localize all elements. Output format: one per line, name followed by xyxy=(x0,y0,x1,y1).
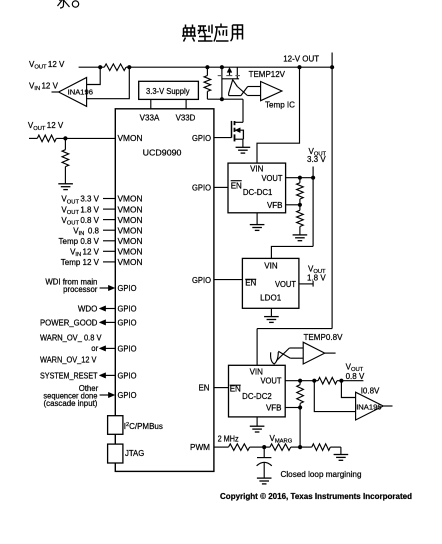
svg-text:V33D: V33D xyxy=(176,113,196,122)
svg-text:GPIO: GPIO xyxy=(118,391,137,400)
svg-text:Temp 12 V: Temp 12 V xyxy=(61,258,100,267)
svg-text:V33A: V33A xyxy=(140,113,160,122)
svg-text:VMON: VMON xyxy=(118,205,143,214)
svg-text:VOUT: VOUT xyxy=(275,280,296,289)
svg-text:PWM: PWM xyxy=(190,443,210,452)
svg-text:UCD9090: UCD9090 xyxy=(143,148,182,158)
svg-text:2 MHz: 2 MHz xyxy=(218,435,239,444)
svg-text:GPIO: GPIO xyxy=(192,134,211,143)
svg-text:VMON: VMON xyxy=(118,248,143,257)
svg-text:POWER_GOOD: POWER_GOOD xyxy=(40,318,98,327)
svg-text:VMON: VMON xyxy=(118,216,143,225)
svg-text:GPIO: GPIO xyxy=(118,319,137,328)
svg-text:SYSTEM_RESET: SYSTEM_RESET xyxy=(40,371,98,380)
svg-text:VOUT12 V: VOUT12 V xyxy=(29,60,65,71)
svg-text:Closed loop margining: Closed loop margining xyxy=(281,470,362,479)
svg-text:VMON: VMON xyxy=(118,237,143,246)
svg-text:INA196: INA196 xyxy=(68,87,93,96)
svg-text:VOUT: VOUT xyxy=(261,376,282,385)
svg-text:VOUT0.8 V: VOUT0.8 V xyxy=(61,216,99,227)
svg-text:VIN: VIN xyxy=(250,368,264,377)
svg-text:GPIO: GPIO xyxy=(118,372,137,381)
svg-text:12-V OUT: 12-V OUT xyxy=(283,55,319,64)
svg-text:LDO1: LDO1 xyxy=(260,293,282,302)
svg-text:VMON: VMON xyxy=(118,134,143,143)
svg-text:EN: EN xyxy=(198,384,209,393)
svg-text:EN: EN xyxy=(245,279,256,288)
svg-text:VMON: VMON xyxy=(118,195,143,204)
svg-text:INA196: INA196 xyxy=(356,402,381,411)
svg-text:WARN_OV_12 V: WARN_OV_12 V xyxy=(40,356,97,365)
svg-text:GPIO: GPIO xyxy=(118,305,137,314)
svg-text:or: or xyxy=(91,344,98,353)
svg-text:VMARG: VMARG xyxy=(270,434,293,445)
svg-text:GPIO: GPIO xyxy=(192,276,211,285)
svg-text:I0.8V: I0.8V xyxy=(361,386,380,395)
svg-text:VMON: VMON xyxy=(118,258,143,267)
svg-text:3.3 V: 3.3 V xyxy=(307,155,326,164)
svg-text:Temp 0.8 V: Temp 0.8 V xyxy=(59,237,100,246)
svg-text:VIN12 V: VIN12 V xyxy=(70,248,100,259)
svg-text:I2C/PMBus: I2C/PMBus xyxy=(124,422,163,431)
svg-text:DC-DC1: DC-DC1 xyxy=(243,188,273,197)
svg-text:VFB: VFB xyxy=(267,201,283,210)
svg-text:GPIO: GPIO xyxy=(118,284,137,293)
svg-text:GPIO: GPIO xyxy=(118,345,137,354)
svg-text:(cascade input): (cascade input) xyxy=(44,399,98,408)
svg-text:VOUT: VOUT xyxy=(262,174,283,183)
svg-text:0.8 V: 0.8 V xyxy=(346,372,365,381)
svg-text:EN: EN xyxy=(231,181,242,190)
svg-text:TEMP12V: TEMP12V xyxy=(249,70,286,79)
svg-text:EN: EN xyxy=(230,385,241,394)
svg-text:WARN_OV_ 0.8 V: WARN_OV_ 0.8 V xyxy=(40,334,102,343)
svg-text:VIN: VIN xyxy=(264,261,278,270)
svg-text:VIN: VIN xyxy=(250,165,264,174)
svg-text:GPIO: GPIO xyxy=(192,184,211,193)
svg-text:VOUT1.8 V: VOUT1.8 V xyxy=(61,205,99,216)
svg-text:VMON: VMON xyxy=(118,226,143,235)
svg-text:Copyright © 2016, Texas Instru: Copyright © 2016, Texas Instruments Inco… xyxy=(220,492,412,501)
svg-text:1.8 V: 1.8 V xyxy=(307,274,326,283)
svg-text:WDO: WDO xyxy=(78,304,98,313)
svg-text:DC-DC2: DC-DC2 xyxy=(242,392,272,401)
svg-text:processor: processor xyxy=(63,285,98,294)
svg-text:JTAG: JTAG xyxy=(125,449,144,458)
svg-text:VIN12 V: VIN12 V xyxy=(29,81,59,92)
svg-text:3.3-V Supply: 3.3-V Supply xyxy=(146,87,190,96)
svg-text:VFB: VFB xyxy=(266,404,282,413)
svg-text:VOUT3.3 V: VOUT3.3 V xyxy=(61,195,99,206)
svg-text:TEMP0.8V: TEMP0.8V xyxy=(304,333,344,342)
svg-text:Temp IC: Temp IC xyxy=(265,101,295,110)
svg-text:VIN 0.8: VIN 0.8 xyxy=(73,226,99,237)
svg-text:VOUT12 V: VOUT12 V xyxy=(28,121,64,132)
